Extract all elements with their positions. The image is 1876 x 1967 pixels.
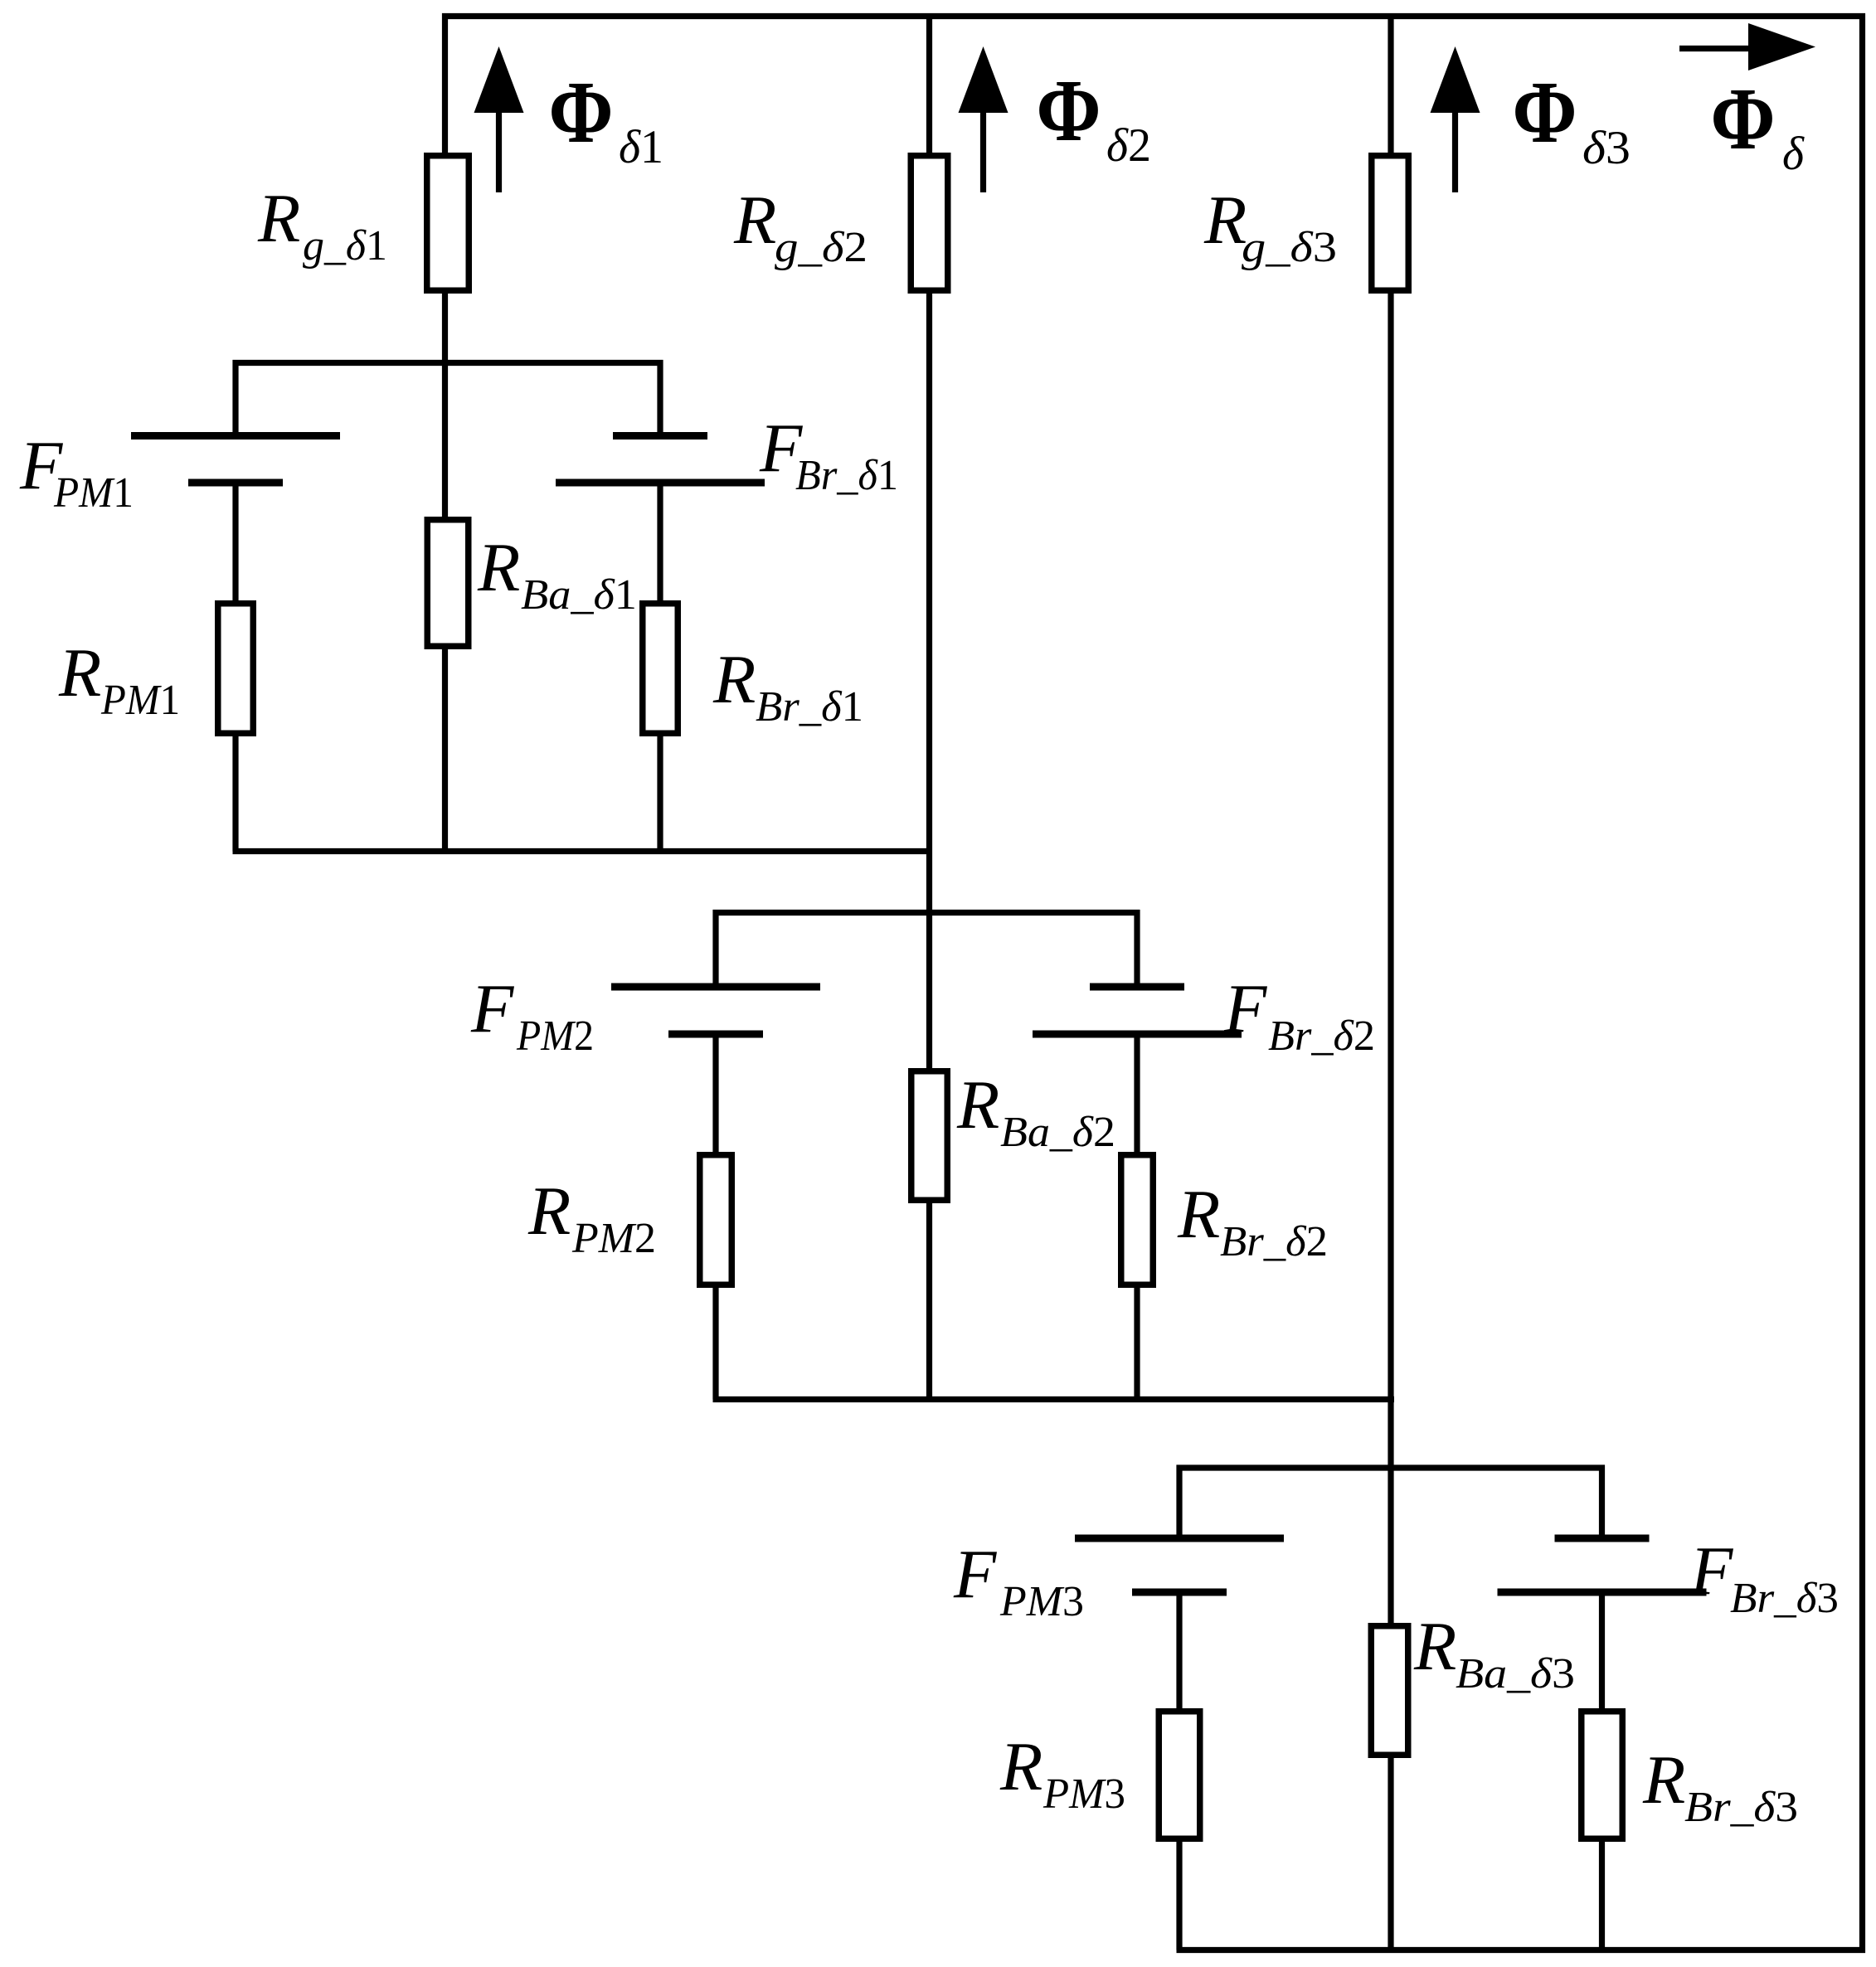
- battery F_PM2 long plate (+): [611, 984, 820, 991]
- svg-text:g_δ1: g_δ1: [303, 222, 387, 270]
- svg-text:R: R: [999, 1728, 1042, 1805]
- wire cell1 right drop to F_Br_d1: [657, 360, 663, 436]
- battery F_Br_d1 short plate (-): [613, 432, 707, 440]
- wire F_PM2 to R_PM2: [712, 1034, 718, 1155]
- resistor R_PM2: [700, 1155, 732, 1285]
- wire branch 2 middle segment: [926, 290, 932, 1071]
- svg-text:R: R: [712, 641, 756, 718]
- svg-text:Ba_δ2: Ba_δ2: [1000, 1109, 1115, 1156]
- wire R_PM1 to bottom rail: [232, 733, 238, 852]
- wire branch 2 upper segment: [926, 13, 932, 156]
- wire branch 1 middle segment: [442, 290, 448, 520]
- battery F_PM1 long plate (+): [131, 432, 340, 440]
- wire R_Br_d1 to bottom rail: [657, 733, 663, 852]
- svg-text:Br_δ3: Br_δ3: [1730, 1575, 1839, 1622]
- resistor R_Br_d2: [1121, 1155, 1154, 1285]
- wire cell2 right drop to F_Br_d2: [1134, 910, 1140, 987]
- svg-text:PM3: PM3: [999, 1578, 1084, 1625]
- svg-text:F: F: [1689, 1532, 1734, 1610]
- flux arrow Phi_d1: [474, 46, 524, 113]
- wire cell1 left drop to F_PM1: [232, 360, 238, 436]
- flux arrow Phi_d2: [959, 46, 1008, 113]
- wire F_Br_d2 to R_Br_d2: [1134, 1034, 1140, 1155]
- resistor R_PM3: [1159, 1712, 1200, 1839]
- resistor R_Br_d1: [643, 604, 678, 734]
- svg-text:PM2: PM2: [516, 1013, 594, 1060]
- wire branch 3 lower segment: [1388, 1755, 1393, 1953]
- svg-text:R: R: [527, 1173, 571, 1250]
- wire F_Br_d1 to R_Br_d1: [657, 483, 663, 604]
- resistor R_Ba_d1: [427, 520, 469, 647]
- resistor R_Br_d3: [1582, 1712, 1623, 1839]
- svg-text:Br_δ2: Br_δ2: [1268, 1013, 1375, 1060]
- resistor R_g_d1: [427, 156, 469, 291]
- wire cell1 top rail: [233, 360, 663, 366]
- battery F_Br_d2 long plate (+): [1033, 1031, 1242, 1038]
- svg-text:F: F: [1223, 970, 1268, 1047]
- svg-text:δ: δ: [1782, 128, 1805, 180]
- wire cell3 top rail: [1177, 1464, 1606, 1470]
- battery F_PM3 long plate (+): [1075, 1535, 1284, 1542]
- resistor R_Ba_d3: [1371, 1626, 1408, 1756]
- svg-text:Φ: Φ: [549, 62, 614, 161]
- wire cell2 top rail: [713, 910, 1140, 916]
- svg-text:Br_δ1: Br_δ1: [795, 452, 898, 499]
- svg-text:PM2: PM2: [571, 1215, 656, 1262]
- svg-text:g_δ3: g_δ3: [1242, 224, 1337, 271]
- svg-text:g_δ2: g_δ2: [775, 224, 868, 271]
- svg-text:R: R: [1413, 1608, 1456, 1685]
- svg-text:Br_δ3: Br_δ3: [1684, 1784, 1798, 1831]
- svg-text:Φ: Φ: [1513, 62, 1577, 161]
- svg-text:R: R: [257, 180, 300, 257]
- wire R_PM2 to bottom rail: [712, 1285, 718, 1400]
- svg-text:Φ: Φ: [1711, 69, 1776, 168]
- svg-text:PM1: PM1: [100, 677, 180, 724]
- wire cell2 bottom rail: [713, 1396, 1395, 1402]
- wire branch 3 middle segment: [1388, 290, 1393, 1626]
- svg-text:Br_δ2: Br_δ2: [1220, 1218, 1328, 1265]
- resistor R_g_d2: [911, 156, 948, 291]
- battery F_PM1 short plate (-): [188, 479, 283, 487]
- wire cell1 bottom rail: [233, 848, 933, 854]
- svg-text:Ba_δ3: Ba_δ3: [1456, 1650, 1575, 1697]
- wire cell3 right drop to F_Br_d3: [1599, 1465, 1605, 1539]
- flux arrow Phi_d (rightward): [1748, 23, 1815, 70]
- svg-text:F: F: [953, 1536, 998, 1613]
- resistor R_PM1: [218, 604, 254, 734]
- battery F_Br_d3 short plate (-): [1555, 1535, 1650, 1542]
- wire R_Br_d3 to bottom rail: [1599, 1838, 1605, 1950]
- wire cell3 left drop to F_PM3: [1176, 1465, 1182, 1539]
- svg-text:R: R: [1642, 1741, 1685, 1819]
- resistor R_g_d3: [1372, 156, 1409, 291]
- svg-text:Φ: Φ: [1037, 61, 1101, 159]
- svg-text:PM3: PM3: [1042, 1770, 1125, 1818]
- battery F_PM3 short plate (-): [1132, 1589, 1227, 1596]
- wire branch 1 upper segment: [442, 13, 448, 156]
- wire cell3 bottom rail: [1177, 1947, 1866, 1953]
- svg-text:R: R: [1203, 182, 1247, 259]
- svg-text:δ2: δ2: [1106, 119, 1151, 172]
- svg-text:R: R: [956, 1066, 999, 1144]
- wire cell2 left drop to F_PM2: [712, 910, 718, 987]
- svg-text:F: F: [470, 970, 515, 1047]
- wire branch 1 lower segment: [442, 646, 448, 854]
- wire branch 3 upper segment: [1388, 13, 1393, 156]
- resistor R_Ba_d2: [911, 1071, 948, 1201]
- flux arrow Phi_d3: [1431, 46, 1480, 113]
- wire F_Br_d3 to R_Br_d3: [1599, 1592, 1605, 1712]
- svg-text:PM1: PM1: [53, 469, 134, 517]
- svg-text:Br_δ1: Br_δ1: [756, 683, 863, 731]
- svg-text:R: R: [58, 634, 101, 712]
- svg-text:δ3: δ3: [1582, 122, 1631, 174]
- svg-text:R: R: [733, 182, 776, 259]
- wire branch 2 lower segment: [926, 1200, 932, 1402]
- battery F_Br_d2 short plate (-): [1090, 984, 1184, 991]
- wire F_PM3 to R_PM3: [1176, 1592, 1182, 1712]
- svg-text:Ba_δ1: Ba_δ1: [521, 571, 637, 619]
- svg-text:R: R: [1177, 1176, 1220, 1253]
- wire F_PM1 to R_PM1: [232, 483, 238, 604]
- battery F_Br_d3 long plate (+): [1498, 1589, 1707, 1596]
- battery F_Br_d1 long plate (+): [556, 479, 765, 487]
- svg-text:δ1: δ1: [619, 121, 663, 173]
- svg-text:R: R: [477, 529, 520, 606]
- wire R_Br_d2 to bottom rail: [1134, 1285, 1140, 1400]
- wire right border / return path: [1859, 13, 1865, 1953]
- wire top bus (air-gap flux bus): [442, 13, 1865, 19]
- battery F_PM2 short plate (-): [668, 1031, 763, 1038]
- wire R_PM3 to bottom rail: [1176, 1838, 1182, 1950]
